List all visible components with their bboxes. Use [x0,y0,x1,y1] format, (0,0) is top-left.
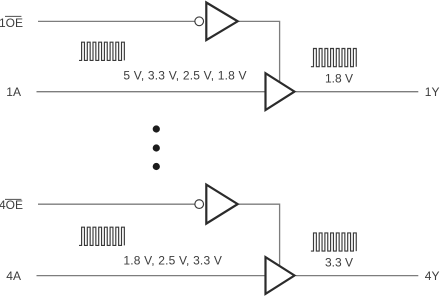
svg-text:3.3 V: 3.3 V [325,255,353,269]
svg-text:4A: 4A [6,269,21,283]
svg-text:4OE: 4OE [0,198,23,212]
svg-text:1A: 1A [6,85,21,99]
svg-text:4Y: 4Y [425,269,440,283]
svg-text:1OE: 1OE [0,16,23,30]
svg-text:1Y: 1Y [425,85,440,99]
svg-text:1.8 V, 2.5 V, 3.3 V: 1.8 V, 2.5 V, 3.3 V [123,254,222,268]
svg-text:5 V, 3.3 V, 2.5 V, 1.8 V: 5 V, 3.3 V, 2.5 V, 1.8 V [123,68,246,82]
svg-text:1.8 V: 1.8 V [325,72,353,86]
